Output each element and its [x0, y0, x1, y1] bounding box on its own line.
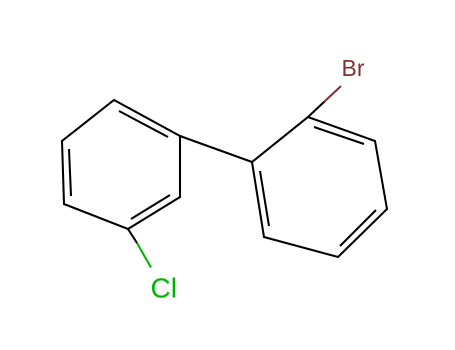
svg-text:Br: Br — [342, 55, 365, 81]
svg-text:Cl: Cl — [151, 273, 177, 304]
